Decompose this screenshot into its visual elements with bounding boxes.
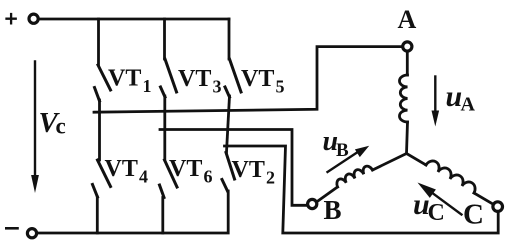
svg-text:VT: VT [232, 157, 265, 183]
svg-text:6: 6 [204, 167, 213, 187]
svg-text:VT: VT [241, 66, 274, 92]
svg-text:B: B [336, 140, 349, 161]
svg-text:3: 3 [213, 76, 222, 96]
svg-text:2: 2 [266, 168, 275, 188]
svg-text:5: 5 [276, 76, 285, 96]
svg-text:C: C [428, 200, 445, 226]
svg-text:VT: VT [178, 66, 211, 92]
svg-text:VT: VT [105, 156, 138, 182]
svg-text:VT: VT [169, 156, 202, 182]
svg-text:C: C [463, 198, 484, 230]
svg-text:1: 1 [143, 76, 152, 96]
svg-text:VT: VT [108, 65, 141, 91]
svg-text:4: 4 [139, 167, 148, 187]
svg-text:B: B [324, 195, 342, 225]
svg-text:c: c [56, 114, 66, 139]
svg-text:A: A [398, 5, 417, 34]
svg-text:A: A [461, 94, 476, 116]
